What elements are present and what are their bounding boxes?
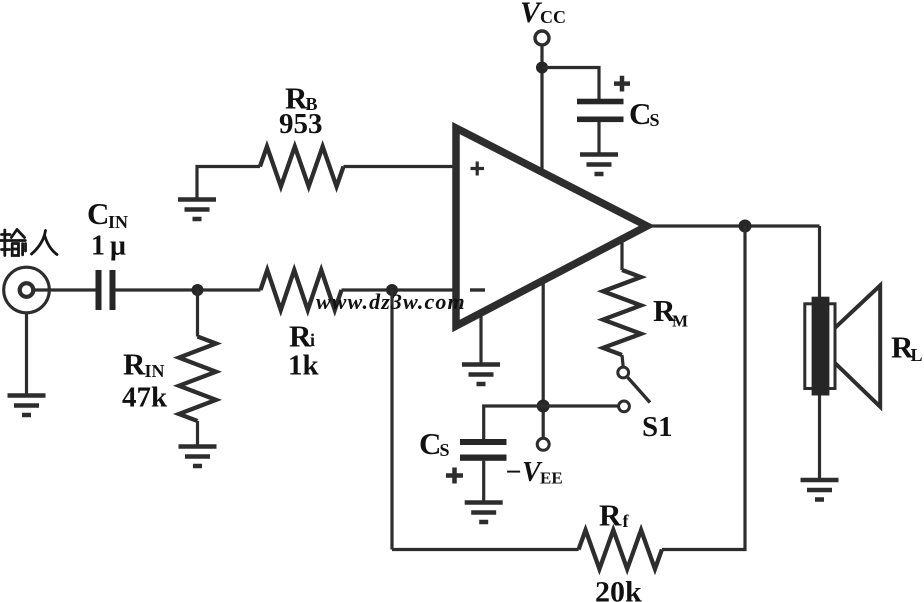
ground (RIN)	[179, 447, 217, 467]
svg-text:953: 953	[279, 108, 323, 140]
pin - (inverting)	[470, 288, 485, 291]
wire op-amp to -VEE line	[542, 280, 545, 438]
pin + (non-inverting)	[471, 162, 485, 176]
resistor RM	[620, 239, 623, 270]
ground (speaker)	[801, 480, 839, 500]
wire RB to op-amp + input	[344, 165, 456, 168]
svg-text:L: L	[911, 345, 923, 365]
svg-text:1k: 1k	[288, 350, 320, 382]
power VCC terminal	[535, 31, 549, 45]
capacitor CS (top bypass)	[577, 99, 624, 122]
svg-text:i: i	[310, 330, 315, 350]
input connector J1	[4, 267, 50, 313]
ground (input connector)	[25, 313, 28, 396]
resistor Ri	[261, 270, 342, 310]
label -VEE	[505, 457, 563, 488]
wire feedback bottom left	[392, 548, 579, 551]
power -VEE terminal	[537, 438, 549, 450]
svg-text:f: f	[623, 511, 630, 531]
wire Rf to output	[662, 226, 745, 550]
svg-text:μ: μ	[110, 231, 126, 262]
label CIN	[87, 196, 128, 232]
switch S1 contact (upper)	[618, 367, 629, 378]
switch S1 contact (lower)	[619, 401, 630, 412]
label RM	[653, 293, 688, 331]
svg-text:C: C	[629, 96, 651, 131]
svg-text:1: 1	[91, 231, 105, 262]
svg-text:M: M	[672, 312, 688, 331]
svg-text:CC: CC	[540, 7, 566, 27]
junction node VCC branch	[536, 62, 548, 74]
wire input to CIN	[34, 288, 96, 291]
svg-text:S: S	[650, 110, 660, 130]
wire output to speaker	[818, 226, 821, 297]
label RL	[891, 330, 923, 366]
svg-text:www.dz3w.com: www.dz3w.com	[316, 289, 466, 314]
wire VCC to op-amp	[540, 46, 543, 175]
junction node output	[739, 220, 752, 233]
svg-text:R: R	[123, 347, 146, 382]
polarity + (bottom CS)	[446, 468, 463, 484]
label CS (top)	[629, 96, 660, 131]
label CS (bottom)	[419, 426, 450, 461]
polarity + (top CS)	[614, 76, 630, 92]
wire CS to ground	[597, 122, 600, 154]
svg-text:R: R	[599, 498, 622, 533]
svg-text:EE: EE	[540, 469, 563, 488]
svg-text:S: S	[440, 440, 450, 460]
ground (op-amp)	[479, 313, 482, 365]
wire feedback tap down	[390, 290, 393, 550]
capacitor CIN	[96, 270, 116, 310]
label RIN	[123, 347, 165, 382]
op-amp U1	[456, 128, 647, 326]
ground (top CS)	[580, 155, 618, 175]
wire op-amp output	[645, 224, 820, 227]
svg-text:R: R	[289, 319, 312, 354]
ground (bottom CS)	[465, 503, 503, 523]
svg-text:47k: 47k	[122, 382, 168, 414]
wire VCC branch to CS	[542, 68, 599, 100]
ground (RB)	[178, 200, 216, 220]
label Rf	[599, 498, 630, 533]
capacitor CS (bottom bypass)	[460, 439, 507, 461]
speaker RL	[805, 304, 835, 389]
label VCC	[520, 0, 566, 29]
svg-text:20k: 20k	[595, 576, 642, 602]
wire speaker to ground	[818, 396, 821, 480]
node 输入 (input label)	[1, 230, 58, 256]
svg-text:−V: −V	[505, 457, 543, 488]
junction node at Ri left	[192, 284, 204, 296]
svg-text:IN: IN	[108, 212, 128, 232]
label Ri	[289, 319, 315, 354]
junction node feedback tap	[386, 284, 398, 296]
junction node VEE branch	[537, 400, 550, 413]
switch S1 blade	[628, 378, 650, 403]
label RB	[285, 81, 318, 116]
wire Ri to op-amp inverting input	[342, 288, 456, 291]
resistor Rf	[579, 530, 662, 569]
wire VEE junction to CS and switch	[484, 406, 619, 440]
svg-text:C: C	[419, 426, 441, 461]
wire CIN to Ri with junction	[116, 288, 261, 291]
svg-text:C: C	[87, 196, 109, 231]
wire bottom CS to ground	[482, 461, 485, 502]
svg-text:IN: IN	[145, 361, 165, 381]
svg-text:S1: S1	[642, 411, 673, 443]
resistor RIN	[196, 290, 199, 337]
resistor RB	[197, 167, 260, 199]
